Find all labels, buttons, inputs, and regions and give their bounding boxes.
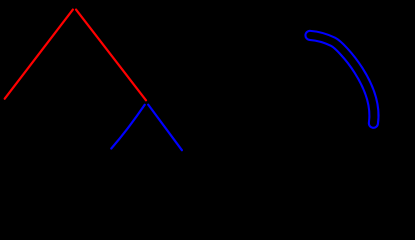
blue stroke: right side of small peak (148, 105, 182, 151)
red stroke: right side of large peak (76, 10, 146, 101)
blue crescent outline: black interior (310, 35, 374, 123)
red stroke: left side of large peak (5, 10, 73, 99)
blue stroke: left side of small peak (111, 105, 144, 149)
canvas background (0, 0, 415, 165)
blue crescent outline: outer band (310, 35, 374, 123)
